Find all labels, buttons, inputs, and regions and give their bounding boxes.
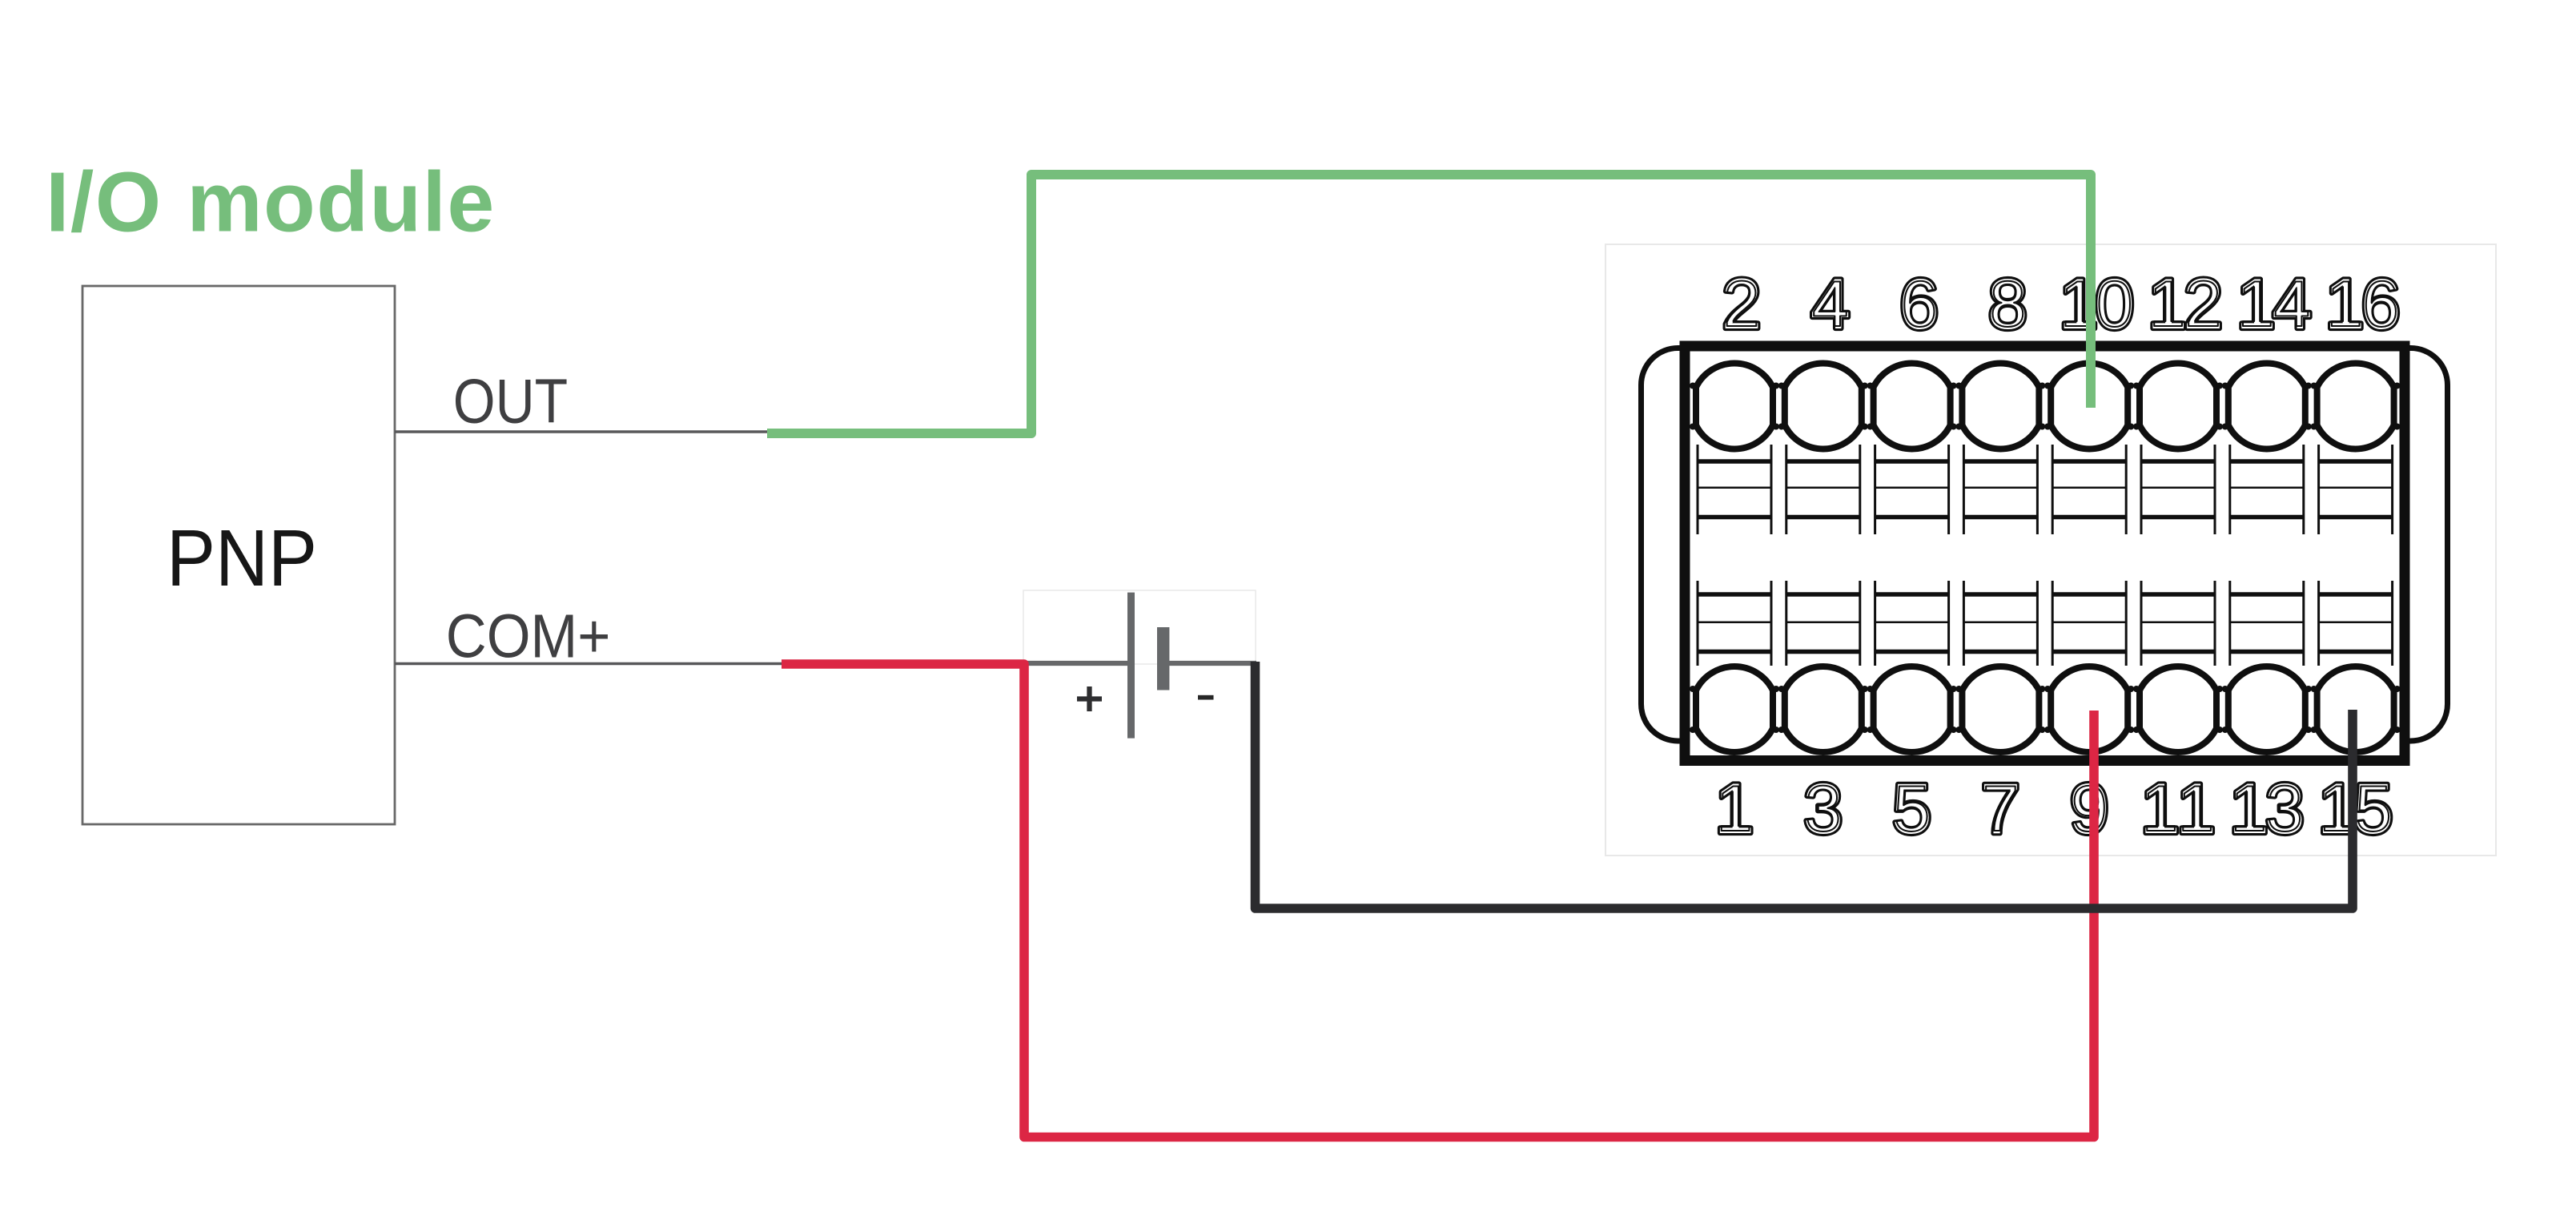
pin 16 spring clamp ladder bbox=[2319, 445, 2393, 534]
pin 5 side tabs bbox=[1867, 686, 1957, 733]
pin 14 spring clamp ladder bbox=[2230, 445, 2304, 534]
battery BT1 negative plate bbox=[1157, 627, 1169, 690]
wire black: battery - to pin 15 bbox=[1256, 662, 2353, 908]
pin 8 spring clamp ladder bbox=[1963, 445, 2037, 534]
svg-text:4: 4 bbox=[1812, 268, 1848, 340]
pin 7 terminal opening bbox=[1962, 666, 2039, 752]
pin 16 side tabs bbox=[2311, 383, 2401, 430]
pin 3 terminal opening bbox=[1785, 666, 1862, 752]
svg-text:5: 5 bbox=[1894, 773, 1930, 845]
wire: COM+ lead (thin gray) bbox=[395, 662, 783, 666]
svg-text:COM+: COM+ bbox=[446, 602, 611, 671]
svg-text:1: 1 bbox=[2327, 268, 2363, 340]
svg-text:4: 4 bbox=[2274, 268, 2310, 340]
pin 11 spring clamp ladder bbox=[2141, 581, 2215, 666]
pin number label 15 bbox=[2317, 768, 2393, 848]
pin 13 spring clamp ladder bbox=[2230, 581, 2304, 666]
svg-text:1: 1 bbox=[2149, 268, 2185, 340]
pin number label 2 bbox=[1722, 264, 1762, 344]
svg-text:6: 6 bbox=[1901, 268, 1937, 340]
pin 1 terminal opening bbox=[1696, 666, 1773, 752]
svg-text:3: 3 bbox=[1805, 773, 1841, 845]
pin 15 spring clamp ladder bbox=[2319, 581, 2393, 666]
svg-text:1: 1 bbox=[2142, 773, 2178, 845]
pin 13 side tabs bbox=[2222, 686, 2312, 733]
pin 5 spring clamp ladder bbox=[1875, 581, 1949, 666]
svg-text:8: 8 bbox=[1990, 268, 2026, 340]
pin 7 side tabs bbox=[1955, 686, 2045, 733]
pin 12 terminal opening bbox=[2140, 364, 2216, 449]
svg-text:7: 7 bbox=[1983, 773, 2019, 845]
wire: OUT lead (thin gray) bbox=[395, 430, 769, 433]
pin number label 13 bbox=[2228, 768, 2305, 848]
pin number label 7 bbox=[1981, 768, 2021, 848]
pin 14 side tabs bbox=[2222, 383, 2312, 430]
pin 13 terminal opening bbox=[2228, 666, 2305, 752]
svg-text:1: 1 bbox=[1717, 773, 1753, 845]
pin number label 9 bbox=[2069, 768, 2109, 848]
pin number label 4 bbox=[1810, 264, 1851, 344]
pin 15 side tabs bbox=[2311, 686, 2401, 733]
pin 10 spring clamp ladder bbox=[2052, 445, 2126, 534]
battery BT1 lead positive side bbox=[1026, 661, 1127, 666]
pin number label 16 bbox=[2325, 264, 2401, 344]
pin 10 terminal opening bbox=[2051, 364, 2128, 449]
pin number label 12 bbox=[2148, 264, 2224, 344]
svg-text:3: 3 bbox=[2267, 773, 2303, 845]
pin number label 3 bbox=[1803, 768, 1843, 848]
svg-text:1: 1 bbox=[2231, 773, 2267, 845]
pin 6 spring clamp ladder bbox=[1875, 445, 1949, 534]
pin 2 spring clamp ladder bbox=[1698, 445, 1771, 534]
pin 16 terminal opening bbox=[2317, 364, 2394, 449]
terminal block J1 body bbox=[1685, 346, 2405, 761]
pin label COM+ bbox=[446, 602, 611, 671]
pin number label 6 bbox=[1899, 264, 1939, 344]
pin label OUT bbox=[453, 367, 568, 436]
pin 7 spring clamp ladder bbox=[1963, 581, 2037, 666]
pin 3 side tabs bbox=[1778, 686, 1868, 733]
PNP sensor box U1 bbox=[82, 286, 395, 824]
pin 6 side tabs bbox=[1867, 383, 1957, 430]
pin number label 8 bbox=[1988, 264, 2028, 344]
pin 9 side tabs bbox=[2044, 686, 2134, 733]
terminal block J1 outer shell (rounded ears) bbox=[1642, 348, 2448, 742]
svg-text:2: 2 bbox=[1724, 268, 1760, 340]
wire red: COM+ via battery + down and to pin 9 bbox=[782, 664, 2094, 1137]
battery BT1 lead negative side bbox=[1169, 661, 1256, 666]
svg-text:2: 2 bbox=[2185, 268, 2221, 340]
pin 12 spring clamp ladder bbox=[2141, 445, 2215, 534]
pin 2 side tabs bbox=[1690, 383, 1779, 430]
battery BT1 positive plate bbox=[1127, 593, 1135, 739]
pin 8 terminal opening bbox=[1962, 364, 2039, 449]
pin 11 terminal opening bbox=[2140, 666, 2216, 752]
wire green: OUT to pin 10 bbox=[767, 175, 2091, 433]
label PNP bbox=[167, 513, 317, 603]
pin 3 spring clamp ladder bbox=[1786, 581, 1860, 666]
battery plus sign bbox=[1077, 686, 1102, 711]
terminal block container frame bbox=[1605, 244, 2496, 856]
pin 1 side tabs bbox=[1690, 686, 1779, 733]
pin 2 terminal opening bbox=[1696, 364, 1773, 449]
pin 10 side tabs bbox=[2044, 383, 2134, 430]
svg-text:6: 6 bbox=[2363, 268, 2399, 340]
svg-text:PNP: PNP bbox=[167, 513, 317, 603]
pin 5 terminal opening bbox=[1874, 666, 1951, 752]
pin 9 terminal opening bbox=[2051, 666, 2128, 752]
title: I/O module bbox=[46, 155, 496, 249]
pin 12 side tabs bbox=[2133, 383, 2223, 430]
pin 4 terminal opening bbox=[1785, 364, 1862, 449]
pin 15 terminal opening bbox=[2317, 666, 2394, 752]
battery minus sign bbox=[1198, 695, 1214, 700]
svg-text:5: 5 bbox=[2356, 773, 2392, 845]
svg-text:I/O module: I/O module bbox=[46, 155, 496, 249]
pin 11 side tabs bbox=[2133, 686, 2223, 733]
pin 1 spring clamp ladder bbox=[1698, 581, 1771, 666]
svg-text:0: 0 bbox=[2096, 268, 2132, 340]
svg-text:OUT: OUT bbox=[453, 367, 568, 436]
pin 4 spring clamp ladder bbox=[1786, 445, 1860, 534]
pin 4 side tabs bbox=[1778, 383, 1868, 430]
pin 14 terminal opening bbox=[2228, 364, 2305, 449]
svg-text:1: 1 bbox=[2178, 773, 2214, 845]
pin number label 10 bbox=[2059, 264, 2135, 344]
svg-text:1: 1 bbox=[2238, 268, 2274, 340]
battery container frame bbox=[1023, 590, 1256, 664]
pin number label 5 bbox=[1892, 768, 1932, 848]
pin number label 11 bbox=[2140, 768, 2216, 848]
pin number label 14 bbox=[2236, 264, 2312, 344]
pin 9 spring clamp ladder bbox=[2052, 581, 2126, 666]
pin 8 side tabs bbox=[1955, 383, 2045, 430]
pin 6 terminal opening bbox=[1874, 364, 1951, 449]
pin number label 1 bbox=[1714, 768, 1754, 848]
